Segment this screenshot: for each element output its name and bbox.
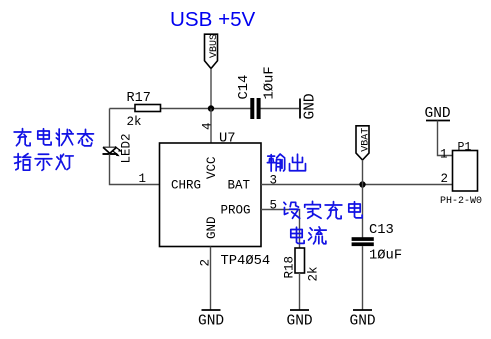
svg-text:VBUS: VBUS xyxy=(209,34,220,58)
svg-text:USB +5V: USB +5V xyxy=(170,8,256,31)
svg-text:VCC: VCC xyxy=(205,156,219,179)
svg-text:C13: C13 xyxy=(369,223,394,238)
LED LED2 xyxy=(103,133,134,163)
op-amp U7 TP4054 body xyxy=(160,132,271,270)
svg-text:R18: R18 xyxy=(283,256,297,279)
wire LED branch top xyxy=(109,109,111,148)
wire P1 pin1 xyxy=(438,121,453,156)
resistor R18 xyxy=(283,248,321,282)
label charging status line1 xyxy=(14,129,93,146)
label output xyxy=(267,154,305,171)
wire VBUS stem xyxy=(210,69,212,109)
ground above P1 xyxy=(425,106,451,122)
svg-text:P1: P1 xyxy=(458,141,472,154)
svg-text:CHRG: CHRG xyxy=(171,179,201,193)
svg-text:R17: R17 xyxy=(127,91,151,106)
svg-text:GND: GND xyxy=(205,216,219,239)
svg-text:LED2: LED2 xyxy=(120,133,134,163)
svg-text:1ØuF: 1ØuF xyxy=(262,66,278,99)
ground under R18 xyxy=(287,310,313,330)
capacitor C14 xyxy=(237,66,278,119)
svg-text:U7: U7 xyxy=(219,132,236,147)
svg-text:GND: GND xyxy=(198,314,224,330)
svg-text:3: 3 xyxy=(270,174,278,188)
wire VBAT stem xyxy=(362,160,364,185)
label set charge current line1 xyxy=(284,201,362,218)
svg-text:4: 4 xyxy=(201,122,215,130)
svg-text:BAT: BAT xyxy=(228,179,251,193)
power flag VBUS xyxy=(205,34,220,69)
svg-text:GND: GND xyxy=(287,314,313,330)
wire PROG pin5 xyxy=(261,210,300,249)
connector P1 xyxy=(440,141,482,207)
svg-text:PROG: PROG xyxy=(221,204,251,218)
wire LED branch bottom xyxy=(110,154,160,184)
wire R18 bottom xyxy=(299,273,301,310)
wire C13 bottom xyxy=(362,246,364,310)
wire rail right segment to GND xyxy=(261,108,300,110)
svg-text:PH-2-W0: PH-2-W0 xyxy=(440,196,482,207)
label charging status line2 xyxy=(14,154,73,171)
svg-text:2: 2 xyxy=(441,172,449,186)
svg-text:2k: 2k xyxy=(127,115,142,129)
svg-text:1: 1 xyxy=(139,172,147,186)
junction at VBAT xyxy=(359,181,365,187)
svg-text:1: 1 xyxy=(440,148,448,162)
ground right of C14 (rotated) xyxy=(300,93,319,119)
wire BAT output net xyxy=(261,184,453,186)
power flag VBAT xyxy=(356,126,372,160)
svg-text:TP4Ø54: TP4Ø54 xyxy=(221,253,271,269)
ground under C13 xyxy=(350,310,376,330)
svg-text:VBAT: VBAT xyxy=(361,128,372,152)
junction at VBUS rail xyxy=(208,105,214,111)
ground under pin2 xyxy=(198,310,224,330)
svg-text:5: 5 xyxy=(270,199,278,213)
label set charge current line2 xyxy=(291,227,326,244)
capacitor C13 xyxy=(352,223,403,264)
resistor R17 xyxy=(127,91,161,129)
wire C13 top xyxy=(362,185,364,238)
wire GND pin2 xyxy=(210,247,212,311)
svg-text:C14: C14 xyxy=(237,75,252,100)
svg-text:GND: GND xyxy=(350,314,376,330)
svg-text:GND: GND xyxy=(303,93,319,119)
wire rail mid segment xyxy=(161,108,251,110)
wire pin4 stem xyxy=(210,109,212,144)
svg-text:2k: 2k xyxy=(307,266,321,281)
wire rail left segment xyxy=(110,108,136,110)
svg-text:1ØuF: 1ØuF xyxy=(369,248,402,264)
